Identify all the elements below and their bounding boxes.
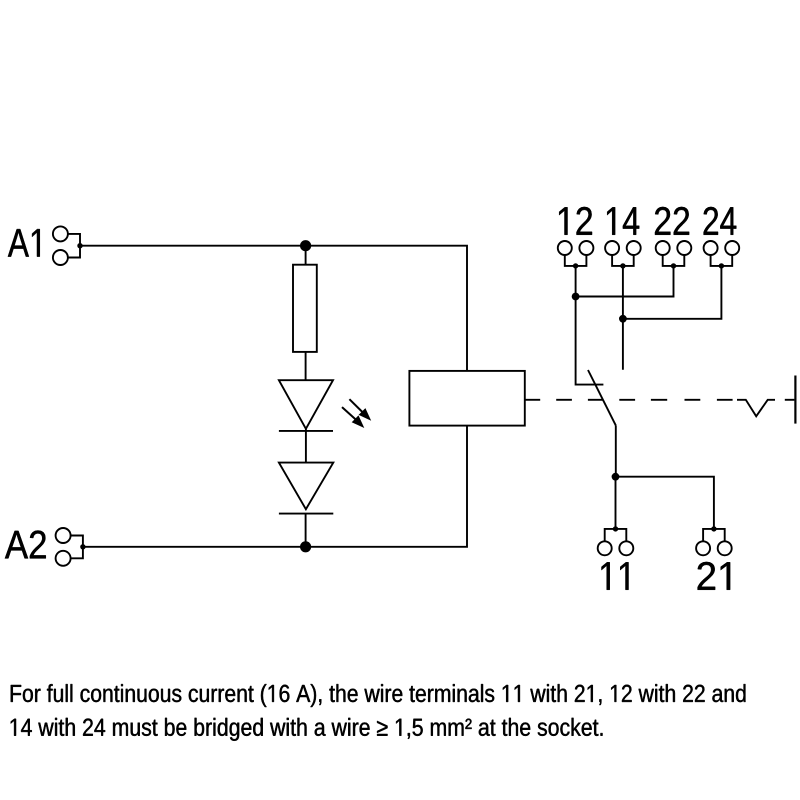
terminal 21 <box>696 526 732 555</box>
diode D2 <box>279 463 333 514</box>
label 12 <box>559 207 592 235</box>
terminal 22 <box>656 241 692 269</box>
label 14 <box>607 207 639 235</box>
relay coil K1 <box>409 371 524 426</box>
wire 14 down to NO contact <box>622 266 624 370</box>
wire 12 to 22 <box>576 266 674 297</box>
LED arrows <box>342 399 371 428</box>
armature end bar <box>794 376 796 424</box>
note text line 1 <box>11 684 746 707</box>
terminal 11 <box>598 526 634 555</box>
label A2 <box>5 531 46 559</box>
mechanical link dashed line <box>525 400 795 417</box>
junction dot 11/21 <box>612 473 620 481</box>
junction dot 14/24 <box>619 315 627 323</box>
label 22 <box>655 207 689 235</box>
switch blade <box>588 370 616 425</box>
terminal 14 <box>605 241 641 269</box>
wire diode to A2 line <box>305 514 307 547</box>
terminal A2 <box>56 528 86 566</box>
wire A2 to coil bottom <box>83 426 467 547</box>
label 21 <box>698 562 731 590</box>
label A1 <box>8 229 40 257</box>
wire A1 to coil top <box>80 246 467 371</box>
terminal 12 <box>558 241 594 269</box>
resistor R1 <box>293 265 317 352</box>
label 24 <box>704 207 737 235</box>
terminal 24 <box>704 241 740 269</box>
LED D1 <box>279 380 333 462</box>
wire blade to junction <box>615 425 617 476</box>
wire 14 to 24 <box>623 266 722 319</box>
wire resistor to LED <box>305 352 307 380</box>
wire junction to resistor <box>305 246 307 265</box>
label 11 <box>602 562 629 590</box>
wire junction to 21 <box>616 477 714 529</box>
wire junction to 11 <box>615 477 617 529</box>
note text line 2 <box>11 718 603 741</box>
junction dot 12/22 <box>572 293 580 301</box>
junction dot A1/resistor <box>300 240 311 251</box>
junction dot diode/A2 <box>300 541 311 552</box>
wire 12 to NC contact hook <box>576 266 604 385</box>
terminal A1 <box>53 226 83 265</box>
